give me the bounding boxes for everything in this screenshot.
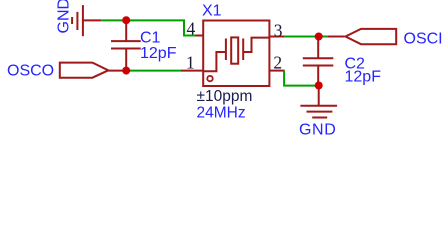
ground stem (bottom)	[318, 86, 320, 106]
capacitor C1	[111, 22, 141, 71]
svg-text:OSCI: OSCI	[404, 30, 443, 47]
pin 2 stub (red)	[270, 70, 285, 72]
crystal element rectangle	[231, 37, 238, 63]
svg-text:1: 1	[186, 52, 195, 72]
junction dot (C1 top node)	[122, 16, 130, 24]
flag lead OSCI	[327, 36, 344, 38]
ground symbol (top-left, rotated, bars)	[72, 5, 101, 36]
pin 4 stub (red)	[196, 35, 204, 37]
junction dot (OSCI node)	[315, 33, 323, 41]
svg-text:12pF: 12pF	[140, 45, 177, 62]
flag lead OSCO to junction	[108, 70, 126, 72]
svg-text:C1: C1	[140, 30, 161, 47]
pin 3 internal lead	[244, 38, 269, 52]
svg-text:GND: GND	[299, 122, 336, 139]
svg-text:OSCO: OSCO	[7, 62, 54, 79]
junction dot (OSCO node)	[122, 67, 130, 75]
wire junction to pin 4 (top horizontal, down, into pin)	[126, 20, 196, 35]
ground symbol (bottom, bars)	[300, 106, 337, 118]
power port flag OSCI	[346, 29, 397, 44]
svg-text:4: 4	[187, 19, 196, 39]
crystal X1 body	[203, 21, 269, 87]
crystal left plate	[225, 39, 227, 61]
svg-text:GND: GND	[56, 0, 73, 34]
svg-text:12pF: 12pF	[345, 69, 382, 86]
junction dot (C2 bottom node)	[315, 82, 323, 90]
wire pin 2 down and right to junction	[284, 71, 315, 86]
power port flag OSCO	[60, 63, 109, 78]
crystal right plate	[242, 39, 244, 61]
pin 1 stub (red)	[181, 70, 203, 72]
svg-text:24MHz: 24MHz	[197, 105, 246, 122]
wire GND to junction (top)	[101, 19, 126, 21]
wire pin 3 to junction	[284, 36, 327, 38]
pin 1 internal lead	[203, 52, 225, 71]
capacitor C2	[303, 37, 334, 86]
pin 3 stub (red)	[270, 36, 285, 38]
pin 1 indicator circle	[207, 76, 212, 81]
svg-text:X1: X1	[202, 3, 222, 20]
svg-text:±10ppm: ±10ppm	[197, 88, 253, 105]
svg-text:3: 3	[274, 20, 283, 40]
svg-text:2: 2	[273, 52, 282, 72]
wire OSCO node to pin 1	[130, 70, 181, 72]
